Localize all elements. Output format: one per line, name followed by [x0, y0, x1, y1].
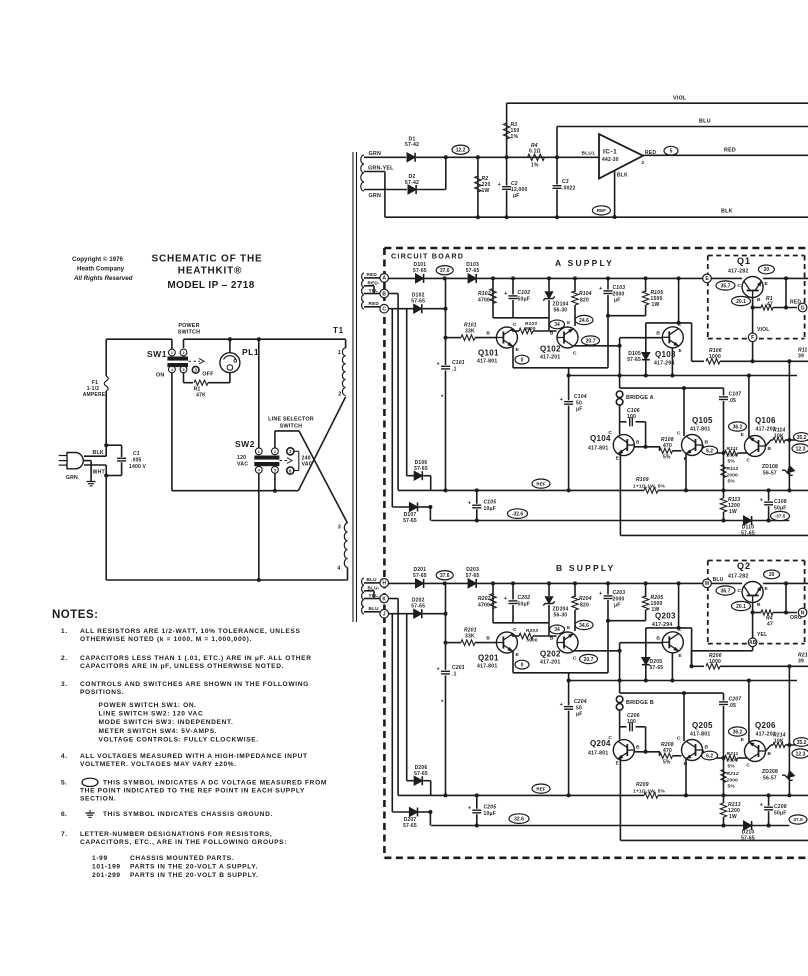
svg-text:E: E: [567, 320, 571, 326]
svg-text:C: C: [573, 351, 577, 357]
svg-text:R103: R103: [525, 321, 537, 327]
svg-text:-37.5: -37.5: [775, 514, 786, 520]
svg-text:57-42: 57-42: [405, 180, 419, 186]
svg-text:37.6: 37.6: [440, 268, 450, 274]
svg-text:VOLTMETER. VOLTAGES MAY VARY: VOLTMETER. VOLTAGES MAY VARY ±20%.: [80, 761, 237, 768]
svg-text:Q203: Q203: [655, 612, 676, 621]
svg-text:AMPERE: AMPERE: [83, 392, 106, 398]
svg-text:57-65: 57-65: [466, 573, 480, 579]
svg-text:201-299: 201-299: [92, 872, 121, 879]
svg-text:101-199: 101-199: [92, 864, 121, 871]
svg-text:C205: C205: [484, 805, 497, 811]
svg-text:0: 0: [521, 357, 524, 363]
svg-text:μF: μF: [576, 407, 583, 413]
svg-text:R203: R203: [526, 628, 538, 634]
svg-text:+: +: [468, 806, 471, 812]
svg-text:6: 6: [289, 468, 292, 473]
svg-text:.0022: .0022: [562, 186, 576, 192]
svg-text:+: +: [468, 501, 471, 507]
svg-text:5%: 5%: [728, 479, 736, 485]
svg-text:7.: 7.: [61, 831, 68, 838]
svg-text:ALL VOLTAGES MEASURED WITH A H: ALL VOLTAGES MEASURED WITH A HIGH-IMPEDA…: [80, 753, 308, 760]
svg-text:THIS SYMBOL INDICATES CHASSIS: THIS SYMBOL INDICATES CHASSIS GROUND.: [103, 811, 273, 818]
svg-text:0: 0: [521, 662, 524, 668]
svg-text:2: 2: [274, 450, 276, 454]
svg-text:442-30: 442-30: [602, 157, 619, 163]
svg-text:1-99: 1-99: [92, 855, 108, 862]
svg-text:THIS SYMBOL INDICATES A DC VOL: THIS SYMBOL INDICATES A DC VOLTAGE MEASU…: [103, 780, 327, 787]
svg-text:Heath Company: Heath Company: [77, 266, 125, 273]
svg-text:GRN: GRN: [369, 151, 382, 157]
svg-text:1000: 1000: [709, 659, 721, 665]
svg-text:RED-: RED-: [368, 281, 380, 286]
svg-text:MODE SWITCH SW3: INDEPENDENT.: MODE SWITCH SW3: INDEPENDENT.: [99, 719, 234, 726]
svg-text:E: E: [567, 625, 571, 631]
svg-text:+: +: [760, 498, 763, 504]
svg-text:A SUPPLY: A SUPPLY: [555, 258, 614, 268]
svg-text:CAPACITORS, ETC., ARE IN THE F: CAPACITORS, ETC., ARE IN THE FOLLOWING G…: [80, 839, 287, 846]
svg-text:+: +: [599, 286, 602, 292]
svg-text:C: C: [737, 283, 741, 289]
svg-text:R212: R212: [727, 771, 739, 777]
svg-text:417-801: 417-801: [588, 446, 608, 452]
svg-text:12.3: 12.3: [796, 751, 806, 757]
svg-text:B: B: [636, 440, 640, 446]
svg-text:33K: 33K: [465, 634, 475, 640]
svg-text:POSITIONS.: POSITIONS.: [80, 689, 124, 696]
svg-text:CAPACITORS ARE IN pF, UNLESS O: CAPACITORS ARE IN pF, UNLESS OTHERWISE N…: [80, 663, 284, 670]
svg-text:B: B: [656, 331, 660, 337]
svg-text:A: A: [382, 276, 386, 282]
svg-text:57-65: 57-65: [403, 518, 417, 524]
svg-text:E: E: [765, 586, 769, 592]
svg-text:1.: 1.: [61, 628, 68, 635]
svg-text:C202: C202: [518, 595, 531, 601]
svg-text:3: 3: [194, 368, 197, 373]
svg-text:B: B: [636, 745, 640, 751]
svg-text:4700: 4700: [478, 298, 490, 304]
svg-text:ON: ON: [156, 373, 165, 379]
svg-text:37.6: 37.6: [440, 573, 450, 579]
svg-text:μF: μF: [513, 193, 520, 199]
svg-text:IC-1: IC-1: [603, 149, 617, 156]
svg-text:12.2: 12.2: [456, 148, 466, 154]
svg-text:3900: 3900: [524, 326, 536, 332]
svg-text:.05: .05: [729, 398, 737, 404]
svg-text:24.6: 24.6: [579, 318, 589, 324]
svg-text:6.2: 6.2: [706, 753, 713, 759]
svg-text:120: 120: [237, 455, 246, 461]
svg-text:METER SWITCH SW4: 5V-AMPS.: METER SWITCH SW4: 5V-AMPS.: [99, 728, 218, 735]
svg-text:.1: .1: [452, 367, 457, 373]
svg-text:E: E: [516, 347, 520, 353]
svg-text:+: +: [498, 182, 501, 188]
svg-text:37.5: 37.5: [793, 817, 803, 823]
svg-text:YEL: YEL: [757, 632, 767, 638]
svg-text:R211: R211: [727, 751, 739, 757]
svg-text:Q202: Q202: [540, 650, 561, 659]
svg-text:56-57: 56-57: [763, 776, 777, 782]
svg-text:50μF: 50μF: [774, 506, 786, 512]
svg-text:B: B: [768, 446, 772, 452]
svg-text:RED: RED: [724, 148, 736, 154]
svg-text:57-65: 57-65: [411, 604, 425, 610]
svg-text:R109: R109: [636, 477, 649, 483]
svg-text:50μF: 50μF: [518, 297, 530, 303]
svg-text:34.6: 34.6: [579, 623, 589, 629]
svg-text:B: B: [757, 602, 761, 608]
svg-text:5%: 5%: [663, 455, 671, 461]
svg-text:56-30: 56-30: [554, 613, 568, 619]
svg-text:57-42: 57-42: [405, 142, 419, 148]
svg-text:1%: 1%: [511, 134, 519, 140]
svg-text:50μF: 50μF: [774, 811, 786, 817]
svg-text:RED: RED: [367, 272, 378, 277]
svg-text:0.1Ω: 0.1Ω: [529, 149, 541, 155]
svg-text:BLU1: BLU1: [582, 151, 595, 157]
svg-text:C207: C207: [729, 697, 742, 703]
svg-text:57-65: 57-65: [466, 268, 480, 274]
svg-text:+: +: [437, 667, 440, 673]
svg-text:1000: 1000: [709, 354, 721, 360]
svg-text:5%: 5%: [663, 760, 671, 766]
svg-text:SW1: SW1: [147, 349, 167, 359]
svg-text:C: C: [513, 627, 517, 633]
svg-text:C201: C201: [452, 665, 465, 671]
svg-text:.05: .05: [729, 703, 737, 709]
svg-text:BRIDGE A: BRIDGE A: [626, 395, 654, 401]
svg-text:34: 34: [554, 322, 560, 328]
svg-text:57-65: 57-65: [627, 357, 641, 363]
svg-text:1W: 1W: [482, 188, 490, 194]
svg-text:MODEL IP – 2718: MODEL IP – 2718: [167, 280, 254, 291]
svg-text:BLU: BLU: [369, 606, 380, 611]
svg-text:WHT: WHT: [93, 470, 106, 476]
svg-text:CONTROLS AND SWITCHES ARE SHOW: CONTROLS AND SWITCHES ARE SHOWN IN THE F…: [80, 681, 309, 688]
svg-text:CHASSIS MOUNTED PARTS.: CHASSIS MOUNTED PARTS.: [130, 855, 234, 862]
svg-text:C204: C204: [574, 699, 587, 705]
svg-text:C: C: [746, 458, 750, 464]
svg-text:C1: C1: [133, 451, 140, 457]
svg-text:μF: μF: [614, 603, 621, 609]
svg-text:2000: 2000: [727, 473, 739, 479]
svg-text:REF: REF: [536, 481, 545, 486]
svg-text:POWER: POWER: [178, 323, 199, 329]
svg-text:BLU: BLU: [699, 119, 711, 125]
svg-text:4.: 4.: [61, 753, 68, 760]
svg-text:E: E: [516, 652, 520, 658]
svg-text:56-30: 56-30: [554, 308, 568, 314]
svg-text:ZD208: ZD208: [762, 769, 778, 775]
svg-text:R209: R209: [636, 782, 649, 788]
svg-text:2: 2: [182, 351, 184, 355]
svg-text:E: E: [616, 456, 620, 462]
svg-text:6.: 6.: [61, 811, 67, 818]
svg-text:All Rights Reserved: All Rights Reserved: [73, 275, 133, 282]
svg-text:1+1Ω,1W, 5%: 1+1Ω,1W, 5%: [633, 789, 666, 795]
svg-text:μF: μF: [614, 298, 621, 304]
svg-text:20.1: 20.1: [736, 604, 746, 610]
svg-text:PL1: PL1: [242, 347, 259, 357]
svg-text:R204: R204: [579, 596, 592, 602]
svg-text:LINE SELECTOR: LINE SELECTOR: [268, 417, 314, 423]
svg-text:E: E: [616, 761, 620, 767]
svg-text:417-801: 417-801: [588, 751, 608, 757]
svg-text:417-294: 417-294: [652, 622, 672, 628]
svg-text:ZD108: ZD108: [762, 464, 778, 470]
svg-text:OFF: OFF: [202, 372, 214, 378]
svg-text:H: H: [382, 581, 386, 587]
svg-text:35.7: 35.7: [721, 283, 731, 289]
svg-text:33K: 33K: [465, 329, 475, 335]
svg-text:1W: 1W: [729, 509, 737, 515]
svg-text:2000: 2000: [727, 778, 739, 784]
svg-text:Copyright © 1976: Copyright © 1976: [72, 256, 124, 263]
svg-text:R112: R112: [727, 466, 739, 472]
svg-text:20.1: 20.1: [736, 299, 746, 305]
svg-text:57-65: 57-65: [414, 771, 428, 777]
svg-text:N: N: [801, 610, 805, 616]
svg-text:Q204: Q204: [590, 739, 611, 748]
svg-text:REF: REF: [536, 786, 545, 791]
svg-text:E: E: [741, 432, 745, 438]
svg-text:Q104: Q104: [590, 434, 611, 443]
svg-text:3.: 3.: [61, 681, 68, 688]
svg-text:B: B: [486, 636, 490, 642]
svg-text:R102: R102: [478, 291, 491, 297]
svg-text:Q106: Q106: [755, 416, 776, 425]
svg-text:3900: 3900: [526, 638, 538, 644]
svg-text:35.2: 35.2: [797, 435, 807, 441]
svg-text:57-65: 57-65: [403, 823, 417, 829]
svg-text:820: 820: [580, 603, 589, 609]
svg-text:SECTION.: SECTION.: [80, 796, 116, 803]
svg-text:10μF: 10μF: [484, 506, 496, 512]
svg-text:10μF: 10μF: [484, 811, 496, 817]
svg-text:BLK: BLK: [721, 209, 733, 215]
svg-text:AB: AB: [749, 640, 757, 646]
svg-text:+: +: [599, 591, 602, 597]
svg-text:+: +: [760, 803, 763, 809]
svg-text:VAC: VAC: [237, 462, 248, 468]
svg-text:Q201: Q201: [478, 654, 499, 663]
svg-text:Q102: Q102: [540, 345, 561, 354]
svg-text:1: 1: [171, 351, 173, 355]
svg-text:C105: C105: [484, 500, 497, 506]
svg-text:GRN: GRN: [369, 193, 382, 199]
svg-text:Q2: Q2: [737, 561, 751, 571]
svg-text:E: E: [679, 653, 683, 659]
svg-text:J: J: [383, 612, 386, 618]
svg-text:36.7: 36.7: [721, 588, 731, 594]
svg-text:THE POINT INDICATED TO THE REF: THE POINT INDICATED TO THE REF POINT IN …: [80, 788, 305, 795]
svg-text:LINE SWITCH SW2: 120 VAC: LINE SWITCH SW2: 120 VAC: [99, 711, 204, 718]
svg-text:NOTES:: NOTES:: [52, 609, 98, 621]
svg-text:GRN: GRN: [66, 475, 78, 481]
svg-text:2: 2: [338, 391, 341, 397]
svg-text:.005: .005: [131, 458, 142, 464]
svg-text:BLU-: BLU-: [368, 586, 380, 591]
svg-text:5%: 5%: [728, 459, 736, 465]
svg-text:BLK: BLK: [93, 450, 104, 456]
svg-text:C3: C3: [562, 179, 569, 185]
svg-text:PARTS IN THE 20-VOLT B SUPPLY.: PARTS IN THE 20-VOLT B SUPPLY.: [130, 872, 259, 879]
svg-text:+: +: [504, 596, 507, 602]
svg-text:C: C: [677, 736, 681, 742]
svg-text:C108: C108: [774, 499, 787, 505]
svg-text:C: C: [737, 588, 741, 594]
svg-text:Q206: Q206: [755, 721, 776, 730]
svg-text:36.2: 36.2: [733, 729, 743, 735]
svg-text:VOLTAGE CONTROLS: FULLY CLOCKW: VOLTAGE CONTROLS: FULLY CLOCKWISE.: [99, 736, 259, 743]
svg-text:E: E: [765, 281, 769, 287]
svg-text:GRN-YEL: GRN-YEL: [368, 166, 394, 172]
svg-text:57-65: 57-65: [650, 665, 664, 671]
svg-text:C: C: [677, 431, 681, 437]
svg-text:C107: C107: [729, 392, 742, 398]
svg-text:Q105: Q105: [692, 416, 713, 425]
svg-text:C104: C104: [574, 394, 587, 400]
svg-text:417-294: 417-294: [654, 361, 674, 367]
svg-text:B: B: [486, 331, 490, 337]
svg-text:5: 5: [182, 368, 184, 372]
svg-text:39: 39: [798, 659, 804, 665]
svg-text:57-65: 57-65: [414, 466, 428, 472]
svg-text:.1: .1: [452, 672, 457, 678]
svg-text:417-201: 417-201: [540, 660, 560, 666]
svg-text:B SUPPLY: B SUPPLY: [556, 563, 615, 573]
svg-text:2000: 2000: [727, 453, 739, 459]
svg-text:470: 470: [663, 443, 672, 449]
svg-text:C: C: [573, 656, 577, 662]
svg-text:2: 2: [642, 160, 645, 166]
svg-text:BLK: BLK: [617, 173, 628, 179]
svg-text:57-65: 57-65: [413, 573, 427, 579]
svg-text:PARTS IN THE 20-VOLT A SUPPLY.: PARTS IN THE 20-VOLT A SUPPLY.: [130, 864, 258, 871]
svg-text:C103: C103: [613, 285, 626, 291]
svg-text:2.: 2.: [61, 655, 68, 662]
svg-text:C102: C102: [518, 290, 531, 296]
svg-text:2000: 2000: [727, 758, 739, 764]
svg-text:20.7: 20.7: [586, 338, 596, 344]
svg-text:R111: R111: [727, 446, 739, 452]
svg-text:10K: 10K: [774, 739, 784, 745]
svg-text:VIOL: VIOL: [757, 327, 769, 333]
svg-text:+: +: [437, 362, 440, 368]
svg-text:M: M: [705, 581, 709, 587]
svg-text:BLU: BLU: [367, 577, 378, 582]
svg-text:REF: REF: [597, 208, 606, 213]
svg-text:1+1Ω,1W, 5%: 1+1Ω,1W, 5%: [633, 484, 666, 490]
svg-text:1W: 1W: [729, 814, 737, 820]
svg-text:4700: 4700: [478, 603, 490, 609]
svg-text:417-282: 417-282: [728, 269, 748, 275]
svg-text:47K: 47K: [196, 393, 206, 399]
svg-text:56-57: 56-57: [763, 471, 777, 477]
svg-text:20: 20: [764, 267, 770, 273]
svg-text:10K: 10K: [774, 434, 784, 440]
svg-text:100: 100: [627, 719, 636, 725]
svg-text:-32.6: -32.6: [512, 511, 524, 517]
svg-text:3: 3: [289, 449, 292, 454]
svg-text:B: B: [550, 636, 554, 642]
svg-text:CIRCUIT BOARD: CIRCUIT BOARD: [391, 252, 464, 261]
svg-text:4: 4: [337, 565, 340, 571]
svg-text:C203: C203: [613, 590, 626, 596]
svg-text:CAPACITORS LESS THAN 1 (.01, E: CAPACITORS LESS THAN 1 (.01, ETC.) ARE I…: [80, 655, 312, 662]
svg-text:417-801: 417-801: [477, 359, 497, 365]
svg-text:G: G: [801, 305, 805, 311]
svg-text:5: 5: [670, 149, 673, 155]
svg-text:HEATHKIT®: HEATHKIT®: [178, 266, 242, 277]
svg-text:5: 5: [274, 468, 276, 472]
svg-text:6.2: 6.2: [706, 448, 713, 454]
svg-text:417-801: 417-801: [477, 664, 497, 670]
svg-text:OTHERWISE NOTED (k = 1000, M =: OTHERWISE NOTED (k = 1000, M = 1,000,000…: [80, 636, 252, 643]
svg-text:K: K: [382, 596, 386, 602]
svg-text:417-801: 417-801: [690, 427, 710, 433]
svg-text:LETTER-NUMBER DESIGNATIONS FOR: LETTER-NUMBER DESIGNATIONS FOR RESISTORS…: [80, 831, 272, 838]
svg-text:1400 V: 1400 V: [129, 464, 147, 470]
svg-text:SWITCH: SWITCH: [178, 330, 200, 336]
svg-text:35.2: 35.2: [797, 740, 807, 746]
svg-text:Q101: Q101: [478, 349, 499, 358]
svg-text:SW2: SW2: [235, 439, 255, 449]
svg-text:Q205: Q205: [692, 721, 713, 730]
svg-text:E: E: [741, 737, 745, 743]
svg-text:36.2: 36.2: [733, 424, 743, 430]
svg-text:B: B: [550, 331, 554, 337]
svg-text:B: B: [705, 440, 709, 446]
svg-text:F: F: [751, 335, 754, 341]
svg-text:57-65: 57-65: [411, 299, 425, 305]
svg-text:+: +: [504, 291, 507, 297]
svg-text:B: B: [382, 291, 386, 297]
svg-text:1%: 1%: [531, 163, 539, 169]
svg-text:R202: R202: [478, 596, 491, 602]
svg-text:VIOL: VIOL: [673, 96, 687, 102]
svg-text:SWITCH: SWITCH: [280, 424, 302, 430]
svg-text:B: B: [757, 297, 761, 303]
svg-text:1: 1: [258, 450, 260, 454]
svg-text:39: 39: [798, 354, 804, 360]
svg-text:32.6: 32.6: [514, 816, 524, 822]
svg-text:RED: RED: [369, 301, 380, 306]
svg-text:B: B: [768, 751, 772, 757]
svg-text:417-282: 417-282: [728, 574, 748, 580]
svg-text:12.3: 12.3: [796, 446, 806, 452]
svg-text:C: C: [513, 322, 517, 328]
svg-text:T1: T1: [333, 326, 344, 335]
svg-text:B: B: [705, 745, 709, 751]
svg-text:34: 34: [554, 627, 560, 633]
svg-text:ALL RESISTORS ARE 1/2-WATT, 10: ALL RESISTORS ARE 1/2-WATT, 10% TOLERANC…: [80, 628, 301, 635]
svg-text:+: +: [560, 702, 563, 708]
svg-text:1W: 1W: [652, 302, 660, 308]
svg-text:+: +: [560, 397, 563, 403]
svg-text:3: 3: [338, 525, 341, 531]
svg-text:μF: μF: [576, 712, 583, 718]
svg-text:5%: 5%: [728, 764, 736, 770]
svg-text:C: C: [746, 763, 750, 769]
svg-text:20.7: 20.7: [584, 657, 594, 663]
svg-text:1: 1: [338, 350, 341, 356]
svg-text:47: 47: [767, 622, 773, 628]
svg-text:BRIDGE B: BRIDGE B: [626, 700, 654, 706]
svg-text:BLU: BLU: [713, 577, 724, 583]
svg-text:100: 100: [627, 414, 636, 420]
svg-text:820: 820: [580, 298, 589, 304]
